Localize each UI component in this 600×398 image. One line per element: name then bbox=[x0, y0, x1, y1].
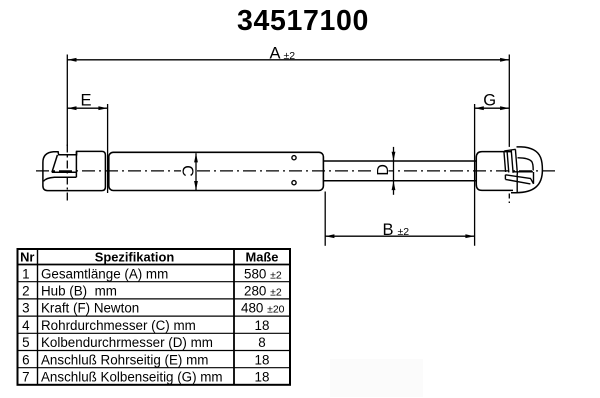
svg-text:±2: ±2 bbox=[284, 50, 296, 62]
right fitting inner socket curve bbox=[518, 158, 534, 171]
left fitting outline bbox=[43, 151, 106, 190]
tube hole top bbox=[292, 156, 296, 160]
main horizontal centerline bbox=[36, 170, 559, 172]
svg-text:18: 18 bbox=[255, 370, 270, 385]
tube bbox=[109, 152, 324, 190]
svg-text:Rohrdurchmesser (C) mm: Rohrdurchmesser (C) mm bbox=[41, 318, 196, 333]
svg-text:6: 6 bbox=[22, 352, 29, 367]
right fitting mid horizontal bbox=[513, 171, 534, 173]
piston rod bbox=[323, 161, 477, 181]
left fitting fold line bbox=[43, 177, 76, 181]
svg-text:Nr: Nr bbox=[20, 249, 34, 264]
svg-text:1: 1 bbox=[22, 266, 29, 281]
dimension line E bbox=[67, 107, 107, 109]
tube hole bottom bbox=[292, 181, 296, 185]
label D gap bbox=[375, 164, 389, 177]
right fitting clip hook bbox=[531, 172, 534, 184]
svg-text:B: B bbox=[382, 221, 393, 239]
svg-text:34517100: 34517100 bbox=[237, 5, 369, 37]
table header separator bbox=[18, 264, 291, 266]
svg-text:3: 3 bbox=[22, 301, 29, 316]
svg-text:580 ±2: 580 ±2 bbox=[244, 266, 282, 281]
svg-text:C: C bbox=[178, 165, 195, 177]
svg-text:8: 8 bbox=[258, 335, 265, 350]
svg-text:5: 5 bbox=[22, 335, 29, 350]
svg-text:280 ±2: 280 ±2 bbox=[244, 284, 282, 299]
table outer border bbox=[18, 249, 291, 385]
table header text bbox=[20, 249, 285, 384]
svg-text:±2: ±2 bbox=[398, 226, 410, 238]
dimension line A bbox=[67, 59, 509, 61]
eyelet vertical centerline bbox=[66, 145, 68, 201]
svg-text:Kolbendurchrmesser (D) mm: Kolbendurchrmesser (D) mm bbox=[41, 335, 213, 350]
watermark bbox=[330, 359, 423, 397]
table column divider Masse bbox=[233, 249, 235, 385]
dimension D bbox=[393, 147, 395, 195]
svg-text:Maße: Maße bbox=[246, 249, 279, 264]
right fitting inner vertical bbox=[516, 174, 518, 193]
svg-text:A: A bbox=[269, 45, 280, 63]
dimension C bbox=[195, 153, 197, 190]
svg-text:G: G bbox=[483, 92, 496, 110]
svg-text:4: 4 bbox=[22, 318, 30, 333]
table row lines bbox=[18, 282, 291, 368]
left fitting block edge bbox=[75, 151, 77, 177]
svg-text:2: 2 bbox=[22, 284, 29, 299]
right fitting clip arm bbox=[505, 175, 531, 184]
svg-text:Gesamtlänge (A) mm: Gesamtlänge (A) mm bbox=[41, 266, 168, 281]
left fitting slant tab bbox=[52, 155, 58, 172]
svg-text:Anschluß Kolbenseitig (G) mm: Anschluß Kolbenseitig (G) mm bbox=[41, 370, 223, 385]
right fitting ribs bbox=[504, 149, 518, 174]
dimension line G bbox=[475, 107, 510, 109]
svg-text:D: D bbox=[375, 164, 392, 176]
right fitting rib top edge bbox=[504, 149, 515, 151]
extension line left (A/E at eyelet center) bbox=[66, 55, 68, 147]
right fitting dome bbox=[511, 147, 542, 193]
svg-text:Spezifikation: Spezifikation bbox=[95, 249, 175, 264]
svg-text:18: 18 bbox=[255, 318, 270, 333]
right fitting vertical centerline bbox=[508, 194, 510, 207]
extension line G/B shared bbox=[474, 104, 476, 246]
svg-text:Kraft (F) Newton: Kraft (F) Newton bbox=[41, 301, 139, 316]
svg-text:18: 18 bbox=[255, 352, 270, 367]
right fitting socket body bbox=[476, 152, 513, 191]
svg-text:Hub (B) mm: Hub (B) mm bbox=[41, 284, 117, 299]
extension line E right (tube end) bbox=[107, 104, 109, 193]
svg-text:E: E bbox=[80, 92, 91, 110]
label C gap bbox=[181, 164, 195, 178]
svg-text:7: 7 bbox=[22, 370, 29, 385]
extension line right (A/G) bbox=[508, 55, 510, 147]
dimension line B bbox=[325, 235, 474, 237]
table column divider Nr bbox=[37, 249, 39, 385]
svg-text:480 ±20: 480 ±20 bbox=[241, 301, 285, 316]
left fitting tab bottom line bbox=[52, 171, 77, 173]
extension line B left (tube end bottom) bbox=[324, 192, 326, 246]
svg-text:Anschluß Rohrseitig (E) mm: Anschluß Rohrseitig (E) mm bbox=[41, 352, 208, 367]
